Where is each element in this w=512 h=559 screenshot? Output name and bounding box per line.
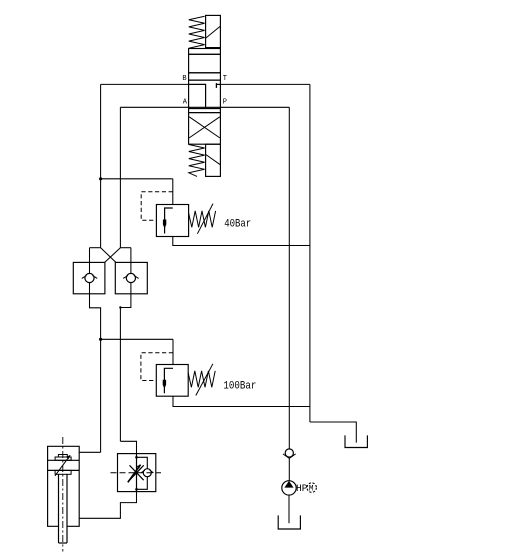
wire CV3 to pump xyxy=(288,458,290,480)
flow control FC1 bypass check valve xyxy=(137,457,154,489)
wire crossover stub right xyxy=(120,247,130,249)
wire A port to vertical xyxy=(120,106,188,108)
wire T port horizontal xyxy=(220,83,310,85)
junction dot FC1 bottom tee xyxy=(135,488,138,491)
valve V1 body band 3 xyxy=(189,109,221,113)
pilot check valve CV1 symbol xyxy=(82,248,97,294)
svg-text:T: T xyxy=(223,75,227,83)
junction dot FC1 top tee xyxy=(135,456,138,459)
tank T2 below pump xyxy=(278,515,300,529)
op: directional valve V1 top solenoid box xyxy=(206,15,221,47)
valve V1 center position box with ports xyxy=(189,80,221,108)
svg-text:A: A xyxy=(183,98,188,106)
wire RV1 feed vertical xyxy=(172,179,174,205)
junction dot B line / RV1 feed xyxy=(99,177,102,180)
wire below CV2 xyxy=(120,294,130,442)
wire T to tank elbow xyxy=(310,422,356,443)
junction dot below CV2 xyxy=(119,306,121,308)
wire RV2 feed vertical xyxy=(172,339,174,364)
svg-text:P: P xyxy=(223,98,227,106)
wire pump suction xyxy=(288,495,290,523)
pilot check valve CV2 symbol xyxy=(123,248,138,294)
valve V1 bottom solenoid box xyxy=(206,144,221,176)
spring (bottom) of valve V1 xyxy=(189,145,205,177)
wire crossover stub left xyxy=(90,247,101,249)
svg-text:M: M xyxy=(309,485,314,494)
valve V1 body band 2 xyxy=(189,73,221,80)
relief valve RV2 box xyxy=(156,365,188,397)
valve V1 blocked port T stub xyxy=(216,83,220,88)
relief valve RV2 spring xyxy=(188,371,215,387)
relief valve RV1 box xyxy=(156,205,188,237)
cylinder CYL1 rod xyxy=(59,474,68,543)
wire FC1 outlet to cylinder bottom xyxy=(79,492,136,519)
wire to flow control inlet xyxy=(120,441,136,453)
svg-text:100Bar: 100Bar xyxy=(223,381,256,393)
svg-text:B: B xyxy=(182,75,186,83)
relief valve RV2 pilot dashed line xyxy=(141,353,173,381)
valve V1 position box 1 (empty) xyxy=(189,54,221,73)
valve V1 internal path B to A-P xyxy=(189,84,206,107)
valve V1 body band 1 xyxy=(189,49,221,55)
relief valve RV2 internal arrow xyxy=(163,368,173,393)
wire P port horizontal xyxy=(220,106,289,108)
wire RV2 outlet xyxy=(173,396,310,406)
wire RV1 feed horizontal xyxy=(101,178,173,180)
wire B port to left vertical xyxy=(101,83,189,85)
flow control FC1 adjust arrow xyxy=(128,465,141,483)
pilot check valve CV2 box xyxy=(115,262,147,293)
wire crossover diagonal from B line xyxy=(101,248,116,263)
wire B vertical line xyxy=(100,84,102,247)
cylinder CYL1 piston xyxy=(48,455,80,475)
tank T1 right xyxy=(345,435,367,447)
valve V1 crossed position box xyxy=(189,113,221,145)
svg-text:HP: HP xyxy=(296,484,308,495)
pilot check valve CV1 box xyxy=(73,262,105,293)
wire cylinder top port xyxy=(79,451,100,453)
wire P vertical line xyxy=(288,107,290,449)
junction dot RV2 feed xyxy=(99,338,102,341)
flow control FC1 centerline dashed xyxy=(111,472,162,474)
wire RV1 outlet xyxy=(173,237,310,246)
cylinder CYL1 centerline xyxy=(62,437,64,552)
svg-text:40Bar: 40Bar xyxy=(224,219,251,231)
relief valve RV1 internal arrow xyxy=(163,208,173,234)
flow control valve FC1 box xyxy=(118,454,156,492)
relief valve RV1 spring xyxy=(189,211,216,227)
motor M1 circle xyxy=(307,483,316,494)
relief valve RV2 feed horizontal xyxy=(101,338,173,340)
cylinder CYL1 body xyxy=(48,446,80,526)
relief valve RV1 feed pilot dashed line xyxy=(141,192,173,221)
wire crossover diagonal from A line xyxy=(105,248,121,263)
flow control FC1 main line xyxy=(136,454,138,492)
spring (top) of valve V1 xyxy=(189,16,205,48)
wire T vertical line xyxy=(309,84,311,422)
pump P1 xyxy=(282,481,296,495)
cylinder CYL1 adjust arrow xyxy=(55,455,70,476)
valve V1 internal A-P through line xyxy=(189,106,221,108)
check valve CV3 (pump outlet) xyxy=(283,449,296,459)
relief valve RV2 adjust arrow xyxy=(196,364,213,396)
wire A vertical line xyxy=(119,107,121,247)
flow control FC1 throttle cross xyxy=(130,465,144,480)
relief valve RV1 adjust arrow xyxy=(197,204,213,234)
wire below CV1 xyxy=(90,294,101,453)
